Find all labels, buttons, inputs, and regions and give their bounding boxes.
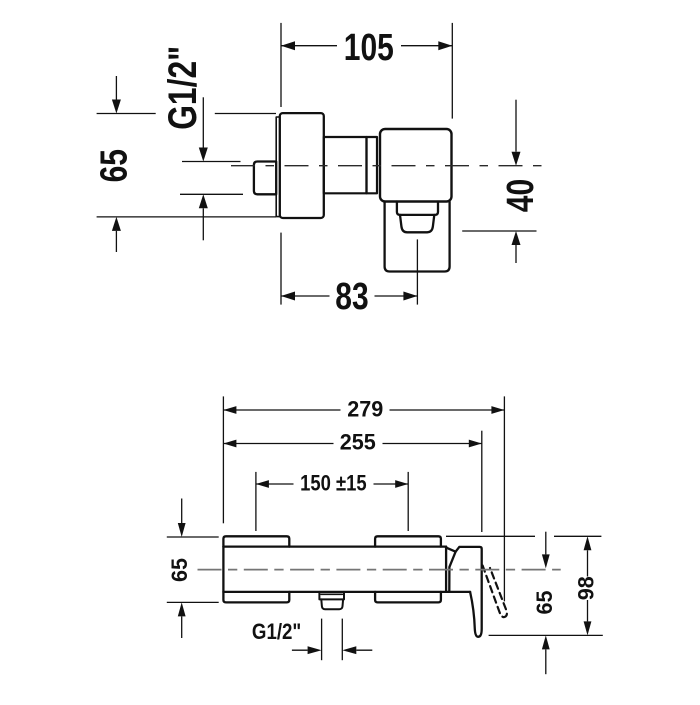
dimension 279 [223, 396, 504, 601]
shaft [324, 137, 367, 193]
collar ring [367, 137, 378, 193]
svg-text:255: 255 [340, 429, 376, 455]
svg-text:98: 98 [573, 576, 599, 600]
svg-text:G1/2": G1/2" [252, 621, 301, 645]
handle recess 1 [397, 202, 438, 215]
svg-text:40: 40 [500, 179, 542, 212]
svg-text:65: 65 [166, 558, 192, 582]
dimension 65 top view [97, 76, 276, 252]
left escutcheon [223, 536, 289, 602]
dimension 105 [281, 23, 452, 119]
svg-text:G1/2": G1/2" [159, 46, 204, 130]
dimension 40 [462, 100, 536, 263]
outlet [319, 592, 344, 600]
dimension 98 [446, 536, 603, 635]
dimension 65 bottom-right [545, 532, 547, 675]
escutcheon thin plate [276, 117, 280, 217]
dimension 255 [223, 431, 481, 532]
dimension G1/2 top [180, 97, 243, 240]
dimension 150 pm 15 [256, 472, 408, 531]
handle [446, 547, 482, 637]
svg-text:105: 105 [344, 27, 394, 69]
handle outer (plan) [385, 202, 450, 272]
dimension 65 bottom-left [167, 499, 219, 639]
dashed lever swung [483, 566, 507, 618]
right escutcheon [375, 536, 441, 602]
wall union cylinder body [280, 113, 324, 218]
centerline bottom view [198, 569, 561, 571]
svg-text:150 ±15: 150 ±15 [300, 471, 367, 496]
svg-text:65: 65 [531, 590, 557, 614]
svg-text:279: 279 [347, 396, 383, 422]
dimension G1/2 outlet [292, 619, 372, 661]
handle recess 2 [400, 215, 434, 232]
bar top [223, 545, 446, 547]
seam [445, 547, 447, 592]
dimension 83 [281, 233, 417, 305]
nipple G1/2 wall connector [254, 162, 276, 195]
bar bottom [223, 591, 470, 593]
mixer block [380, 129, 452, 202]
svg-text:83: 83 [335, 276, 368, 318]
svg-text:65: 65 [93, 149, 135, 182]
centerline top view [231, 165, 545, 167]
